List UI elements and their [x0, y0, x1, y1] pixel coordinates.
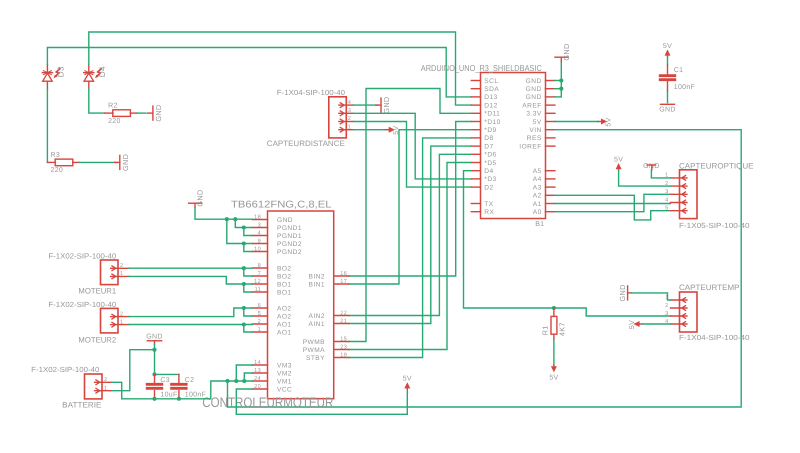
ground GND (CAPTEUROPTIQUE pin1): [643, 163, 659, 170]
svg-text:20: 20: [254, 384, 261, 390]
junction C3 top: [152, 372, 156, 376]
label CAPTEUROPTIQUE: [679, 161, 754, 170]
connector MOTEUR1 F-1X02-SIP-100-40: [101, 260, 130, 285]
svg-text:4: 4: [348, 100, 351, 106]
svg-text:17: 17: [340, 279, 347, 285]
wire CAPTEURDISTANCE pin1 to 5V: [353, 129, 385, 131]
supply 5V (below R1): [549, 365, 558, 381]
svg-text:BIN2: BIN2: [309, 273, 325, 280]
junction Arduino GND pin1: [559, 78, 563, 82]
wire 5V to C1: [667, 56, 669, 65]
svg-text:R2: R2: [108, 103, 118, 110]
pin numbers CAPTEURTEMP 1-4: [665, 295, 668, 325]
ground GND (right of R3): [115, 154, 130, 171]
junction R1 top node: [552, 306, 556, 310]
pin numbers BATTERIE 2 1: [104, 377, 107, 391]
svg-text:PGND1: PGND1: [277, 233, 302, 240]
wire net TEMP/D4 (Arduino D4 to R1 and CAPTEURTEMP pin3): [464, 171, 671, 316]
svg-text:A2: A2: [533, 193, 542, 200]
svg-text:SCL: SCL: [484, 78, 498, 85]
svg-text:3: 3: [258, 222, 261, 228]
svg-text:TX: TX: [484, 201, 493, 208]
svg-text:VM3: VM3: [277, 362, 292, 369]
svg-text:12: 12: [254, 279, 261, 285]
svg-text:RX: RX: [484, 209, 494, 216]
svg-text:23: 23: [340, 344, 347, 350]
junction TB AO2: [242, 306, 246, 310]
svg-text:BO1: BO1: [277, 289, 292, 296]
svg-text:SDA: SDA: [484, 86, 499, 93]
svg-text:2: 2: [665, 303, 668, 309]
svg-text:5V: 5V: [605, 117, 612, 126]
svg-text:16: 16: [340, 271, 347, 277]
supply 5V (CAPTEUROPTIQUE pin2): [614, 156, 623, 169]
svg-text:5V: 5V: [614, 156, 623, 163]
svg-text:CONTROLEURMOTEUR: CONTROLEURMOTEUR: [202, 395, 333, 410]
label BATTERIE: [62, 401, 101, 410]
svg-text:5: 5: [665, 206, 668, 212]
svg-text:D3: D3: [57, 66, 66, 77]
svg-text:F-1X02-SIP-100-40: F-1X02-SIP-100-40: [48, 251, 116, 260]
junction C3 bottom: [152, 397, 156, 401]
supply 5V (VCC rail): [403, 376, 412, 389]
wire CAPTEURDISTANCE pin4 to GND: [353, 104, 377, 106]
svg-text:F-1X02-SIP-100-40: F-1X02-SIP-100-40: [31, 365, 99, 374]
junction VM rail C: [242, 379, 246, 383]
svg-text:PWMA: PWMA: [303, 347, 325, 354]
label F-1X04-SIP-100-40 (CAPTEURTEMP): [679, 333, 750, 342]
wire battery pin1 to GND node: [112, 344, 155, 390]
svg-text:VCC: VCC: [277, 386, 292, 393]
svg-text:*D6: *D6: [484, 152, 496, 159]
svg-text:F-1X04-SIP-100-40: F-1X04-SIP-100-40: [277, 88, 345, 97]
svg-text:GND: GND: [618, 284, 627, 301]
wire R2 to GND: [137, 112, 146, 114]
junction TB BO1: [242, 282, 246, 286]
svg-text:AO2: AO2: [277, 305, 292, 312]
wire net D2ARD (CAPTEURDISTANCE pin2 to Arduino D2): [353, 122, 471, 188]
svg-text:BO2: BO2: [277, 273, 292, 280]
connector CAPTEURDISTANCE F-1X04-SIP-100-40: [329, 97, 354, 138]
ground GND (below C1): [659, 104, 675, 113]
svg-text:4: 4: [258, 230, 261, 236]
ground GND (battery): [146, 334, 162, 345]
wire MOTEUR1 pin1 to TB BO1: [129, 276, 252, 292]
resistor R2 220: [105, 103, 137, 125]
svg-text:9: 9: [258, 238, 261, 244]
svg-text:PGND2: PGND2: [277, 249, 302, 256]
wire battery pin2 VM rail: [112, 381, 252, 399]
wire GND to CAPTEUROPTIQUE pin1: [651, 170, 670, 178]
svg-text:*D9: *D9: [484, 127, 496, 134]
svg-text:*D5: *D5: [484, 160, 496, 167]
svg-text:ARDUINO_UNO_R3_SHIELDBASIC: ARDUINO_UNO_R3_SHIELDBASIC: [421, 63, 542, 73]
svg-text:8: 8: [258, 263, 261, 269]
svg-text:1: 1: [120, 271, 123, 277]
junction GND node: [152, 348, 156, 352]
svg-text:B1: B1: [535, 221, 544, 228]
label B1: [535, 221, 544, 228]
connector BATTERIE F-1X02-SIP-100-40: [85, 374, 113, 399]
capacitor C1 100nF: [660, 65, 695, 91]
svg-text:F-1X05-SIP-100-40: F-1X05-SIP-100-40: [679, 221, 750, 230]
wire R3 to GND: [79, 161, 116, 163]
svg-text:4: 4: [665, 197, 668, 203]
svg-text:GND: GND: [659, 107, 675, 114]
supply 5V (Arduino 5V pin): [598, 117, 613, 126]
LED D3: [42, 64, 65, 88]
resistor R3 220: [47, 152, 79, 174]
wire MOTEUR1 pin2 to TB BO2: [129, 268, 252, 276]
svg-text:5V: 5V: [533, 119, 542, 126]
svg-text:15: 15: [340, 336, 347, 342]
svg-text:5V: 5V: [629, 320, 636, 329]
svg-text:2: 2: [104, 377, 107, 383]
svg-text:GND: GND: [526, 86, 542, 93]
svg-text:3: 3: [665, 311, 668, 317]
label F-1X02-SIP-100-40 (MOTEUR1): [48, 251, 116, 260]
svg-text:GND: GND: [154, 105, 163, 122]
svg-text:GND: GND: [277, 217, 293, 224]
svg-text:STBY: STBY: [306, 355, 325, 362]
svg-text:2: 2: [348, 116, 351, 122]
svg-text:GND: GND: [146, 334, 162, 341]
junction Arduino GND pin2: [559, 87, 563, 91]
svg-text:RES: RES: [527, 135, 542, 142]
svg-text:100nF: 100nF: [674, 84, 695, 91]
svg-text:22: 22: [340, 310, 347, 316]
junction TB AO1: [242, 322, 246, 326]
wire net PWMB/D11 (TB6612 PWMB to Arduino *D11): [349, 89, 471, 342]
supply 5V (C1 top): [663, 43, 672, 56]
svg-text:R3: R3: [51, 152, 61, 159]
connector CAPTEUROPTIQUE F-1X05-SIP-100-40: [671, 170, 698, 219]
svg-text:D4: D4: [98, 66, 107, 77]
svg-text:R1: R1: [540, 325, 549, 335]
junction TB GND rail B: [233, 217, 237, 221]
pin numbers CAPTEURDISTANCE 4 3 2 1: [348, 100, 351, 131]
svg-text:5V: 5V: [403, 376, 412, 383]
svg-text:TB6612FNG,C,8,EL: TB6612FNG,C,8,EL: [231, 200, 332, 211]
wire net A1 (Arduino A1 to CAPTEUROPTIQUE pin4): [555, 203, 671, 205]
capacitor C2 100nF: [172, 374, 207, 398]
svg-text:A5: A5: [533, 168, 542, 175]
wire Arduino 5V pin: [555, 121, 598, 123]
label MOTEUR1: [78, 286, 116, 295]
svg-text:CAPTEUROPTIQUE: CAPTEUROPTIQUE: [679, 161, 754, 170]
svg-text:3.3V: 3.3V: [526, 111, 542, 118]
label TB6612FNG,C,8,EL: [231, 200, 332, 211]
svg-text:3: 3: [348, 108, 351, 114]
svg-text:24: 24: [254, 376, 261, 382]
svg-text:C2: C2: [185, 377, 195, 384]
svg-text:F-1X02-SIP-100-40: F-1X02-SIP-100-40: [48, 300, 116, 309]
svg-text:MOTEUR1: MOTEUR1: [78, 286, 116, 295]
supply 5V (CAPTEURDISTANCE pin1): [385, 126, 400, 135]
svg-text:D4: D4: [484, 168, 493, 175]
svg-text:21: 21: [340, 318, 347, 324]
wire 5V to CAPTEUROPTIQUE pin2: [619, 170, 671, 186]
label F-1X02-SIP-100-40 (BATTERIE): [31, 365, 99, 374]
svg-text:PGND2: PGND2: [277, 241, 302, 248]
wire TB VM2 feed: [244, 373, 252, 381]
svg-text:VM2: VM2: [277, 370, 292, 377]
label CAPTEURDISTANCE: [267, 139, 345, 148]
svg-text:PWMB: PWMB: [303, 339, 325, 346]
svg-text:C3: C3: [160, 377, 170, 384]
wire net AIN1/D7 (Arduino D7 to TB6612 AIN1): [349, 146, 471, 323]
svg-text:*D11: *D11: [484, 111, 500, 118]
label ARDUINO_UNO_R3_SHIELDBASIC: [421, 63, 542, 73]
svg-text:A0: A0: [533, 209, 542, 216]
svg-text:1: 1: [120, 319, 123, 325]
svg-text:CAPTEURDISTANCE: CAPTEURDISTANCE: [267, 139, 345, 148]
label F-1X02-SIP-100-40 (MOTEUR2): [48, 300, 116, 309]
IC B1 ARDUINO_UNO_R3_SHIELDBASIC: [471, 73, 555, 219]
svg-text:10uF: 10uF: [160, 391, 177, 398]
svg-text:A1: A1: [533, 201, 542, 208]
svg-text:5V: 5V: [549, 375, 558, 382]
svg-text:AO1: AO1: [277, 329, 292, 336]
wire GND node down to capacitors: [155, 350, 179, 375]
svg-text:GND: GND: [382, 97, 391, 114]
svg-text:BO2: BO2: [277, 265, 292, 272]
svg-text:1: 1: [348, 124, 351, 130]
svg-text:7: 7: [258, 271, 261, 277]
wire 5V to CAPTEURTEMP pin4: [642, 323, 670, 325]
svg-text:100nF: 100nF: [185, 391, 206, 398]
wire net D12 (LED D4 anode to Arduino D12): [89, 32, 472, 105]
wire TB VM3 feed: [236, 365, 252, 381]
svg-text:D12: D12: [484, 102, 497, 109]
svg-text:10: 10: [254, 246, 261, 252]
LED D4: [84, 64, 107, 88]
wire TB6612 GND/PGND bus: [195, 208, 252, 252]
svg-text:11: 11: [255, 287, 261, 293]
junction C2 bottom: [177, 397, 181, 401]
svg-text:VIN: VIN: [529, 127, 541, 134]
wire net A2 (Arduino A2 to CAPTEUROPTIQUE pin5): [555, 195, 671, 220]
wire GND to CAPTEURTEMP pin1: [631, 293, 670, 300]
wire LED D4 cathode to R2: [89, 89, 105, 114]
svg-text:GND: GND: [196, 189, 205, 206]
svg-text:BATTERIE: BATTERIE: [62, 401, 101, 410]
ground GND (CAPTEURDISTANCE pin4): [376, 97, 391, 114]
svg-text:C1: C1: [674, 67, 684, 74]
svg-text:D8: D8: [484, 135, 493, 142]
wire net BIN2/D10 (Arduino *D10 to TB6612 BIN2): [349, 122, 471, 277]
label CAPTEURTEMP: [679, 283, 740, 292]
svg-text:PGND1: PGND1: [277, 225, 302, 232]
wire net D13 (LED D3 anode to Arduino D13): [47, 48, 471, 97]
wire net STBY/D8 (Arduino D8 to TB6612 STBY): [349, 138, 471, 358]
ground GND (above Arduino): [555, 43, 571, 61]
svg-text:4K7: 4K7: [558, 322, 567, 336]
junction VM rail A: [225, 379, 229, 383]
junction TB PGND2: [242, 241, 246, 245]
svg-text:AO2: AO2: [277, 313, 292, 320]
pin numbers MOTEUR2 2 1: [120, 311, 123, 325]
svg-text:1: 1: [104, 386, 107, 392]
svg-text:AIN1: AIN1: [309, 321, 325, 328]
wire MOTEUR2 pin2 to TB AO2: [129, 308, 252, 317]
wire Arduino GND pins bus: [555, 62, 561, 97]
wire MOTEUR2 pin1 to TB AO1: [129, 325, 252, 333]
svg-text:D7: D7: [484, 143, 493, 150]
wire net D3ARD (CAPTEURDISTANCE pin3 to Arduino *D3): [353, 113, 471, 179]
connector CAPTEURTEMP F-1X04-SIP-100-40: [671, 292, 698, 332]
svg-text:6: 6: [258, 303, 261, 309]
svg-text:IOREF: IOREF: [519, 143, 541, 150]
svg-text:*D3: *D3: [484, 176, 496, 183]
svg-text:MOTEUR2: MOTEUR2: [78, 335, 116, 344]
svg-text:AREF: AREF: [522, 102, 541, 109]
svg-text:AIN2: AIN2: [309, 313, 325, 320]
svg-text:BIN1: BIN1: [309, 281, 325, 288]
wire net VCC (TB VCC to 5V): [236, 389, 407, 414]
IC CONTROLEURMOTEUR TB6612FNG: [252, 211, 349, 399]
ground GND (CAPTEURTEMP pin1): [618, 284, 631, 301]
svg-text:2: 2: [120, 263, 123, 269]
label F-1X05-SIP-100-40 (CAPTEUROPTIQUE): [679, 221, 750, 230]
label MOTEUR2: [78, 335, 116, 344]
svg-text:GND: GND: [121, 154, 130, 171]
svg-text:3: 3: [665, 189, 668, 195]
svg-text:220: 220: [108, 118, 121, 125]
label F-1X04-SIP-100-40 (CAPTEURDISTANCE): [277, 88, 345, 97]
svg-text:2: 2: [120, 311, 123, 317]
ground GND (above TB6612): [189, 189, 205, 207]
svg-text:19: 19: [340, 352, 347, 358]
resistor R1 4K7: [540, 308, 566, 365]
supply 5V (CAPTEURTEMP pin4): [629, 320, 642, 329]
svg-text:5V: 5V: [663, 43, 672, 50]
svg-text:F-1X04-SIP-100-40: F-1X04-SIP-100-40: [679, 333, 750, 342]
svg-text:14: 14: [254, 360, 261, 366]
junction TB GND rail A: [225, 217, 229, 221]
svg-text:A3: A3: [533, 184, 542, 191]
pin numbers MOTEUR1 2 1: [120, 263, 123, 277]
junction TB BO2: [242, 266, 246, 270]
connector MOTEUR2 F-1X02-SIP-100-40: [101, 308, 130, 333]
svg-text:VM1: VM1: [277, 378, 292, 385]
junction TB PGND1: [242, 225, 246, 229]
svg-text:2: 2: [258, 319, 261, 325]
pin numbers CAPTEUROPTIQUE 1-5: [665, 173, 668, 212]
svg-text:CAPTEURTEMP: CAPTEURTEMP: [679, 283, 740, 292]
capacitor C3 10uF: [147, 374, 177, 398]
wire LED D3 cathode to R3: [46, 89, 48, 163]
svg-text:18: 18: [254, 214, 261, 220]
svg-text:D2: D2: [484, 184, 493, 191]
ground GND (right of R2): [148, 105, 163, 122]
svg-text:13: 13: [254, 368, 261, 374]
wire net AIN2/D6 (Arduino *D6 to TB6612 AIN2): [349, 154, 471, 315]
svg-text:BO1: BO1: [277, 281, 292, 288]
svg-text:GND: GND: [526, 94, 542, 101]
wire net BIN1/D9 (Arduino *D9 to TB6612 BIN1): [349, 130, 471, 284]
svg-text:220: 220: [51, 167, 64, 174]
svg-text:1: 1: [258, 327, 261, 333]
wire C1 to GND: [667, 91, 669, 103]
svg-text:A4: A4: [533, 176, 542, 183]
label CONTROLEURMOTEUR: [202, 395, 333, 410]
wire net A0 (Arduino A0 to CAPTEUROPTIQUE pin3): [555, 194, 671, 211]
svg-text:AO1: AO1: [277, 321, 292, 328]
junction VM rail B: [234, 379, 238, 383]
wire net VIN/VM (Arduino VIN loop to TB6612 VM rail): [228, 130, 742, 407]
svg-text:GND: GND: [562, 43, 571, 60]
wire net PWMA/D5 (Arduino *D5 to TB6612 PWMA): [349, 163, 471, 350]
svg-text:GND: GND: [526, 78, 542, 85]
svg-text:*D10: *D10: [484, 119, 500, 126]
svg-text:D13: D13: [484, 94, 497, 101]
svg-text:5: 5: [258, 311, 261, 317]
